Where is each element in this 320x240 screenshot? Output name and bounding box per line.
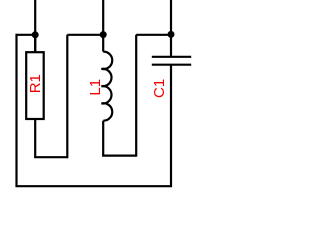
wire node 3 horizontal to riser — [136, 34, 171, 36]
svg-text:C1: C1 — [151, 79, 168, 98]
capacitor C1 top plate — [152, 56, 191, 58]
wire L1 bottom to loop bottom — [102, 121, 104, 156]
wire R1 top lead stub — [34, 35, 36, 52]
resistor R1 body — [26, 52, 44, 119]
wire top lead into node 3 (C1 top) — [170, 0, 172, 35]
junction dot node 3 — [168, 31, 175, 38]
svg-text:R1: R1 — [27, 74, 44, 93]
wire node 2 horizontal to riser — [67, 34, 103, 36]
wire loop bottom L1-C1 — [102, 155, 136, 157]
wire outer loop: left edge, bottom rail, right edge up to C1 bottom — [17, 34, 172, 186]
wire loop riser up to node 3 — [135, 35, 137, 157]
wire L1 top lead — [102, 35, 104, 52]
inductor L1 coil — [101, 52, 112, 121]
wire top lead into node 2 (L1 top) — [102, 0, 104, 35]
svg-text:L1: L1 — [87, 79, 104, 96]
capacitor C1 bottom plate — [152, 64, 191, 66]
wire top lead into node 1 (R1 top) — [34, 0, 36, 52]
wire node 1 to outer loop left — [17, 34, 36, 36]
wire R1 bottom to loop bottom — [34, 119, 36, 157]
junction dot node 2 — [100, 31, 107, 38]
wire C1 top lead — [170, 34, 172, 56]
wire loop riser up to node 2 — [66, 35, 68, 158]
junction dot node 1 — [32, 31, 39, 38]
wire loop bottom R1-L1 — [34, 156, 67, 158]
